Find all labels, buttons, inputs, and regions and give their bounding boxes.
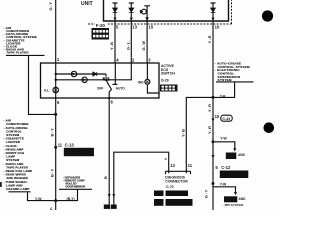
svg-text:10: 10 [215, 24, 220, 29]
svg-text:HAR-: HAR- [155, 200, 161, 203]
MPI SYSTEM label [223, 203, 244, 207]
wire below pin5 (B-Y) [55, 98, 57, 210]
label 10 C-43 [215, 114, 220, 119]
wire label Y-B on pin11 wire [180, 128, 185, 137]
list 3 feeder wire [28, 192, 56, 201]
wire label Y-B [109, 41, 114, 50]
node dot wireA [55, 73, 57, 75]
svg-text:13: 13 [132, 24, 137, 29]
connector F-20 label [95, 23, 108, 28]
diode D2 inside unit [129, 3, 134, 21]
wire through switch (pin1 to pin5) [55, 63, 57, 98]
svg-text:B-Y: B-Y [50, 128, 55, 137]
svg-text:G-W: G-W [141, 40, 146, 50]
ILL lamp [53, 87, 59, 93]
branch1 wire [213, 142, 235, 149]
arrow branch2 [234, 192, 237, 195]
diode D1 inside unit [113, 3, 118, 21]
node dot wireB [55, 79, 57, 81]
AND label 2 [239, 197, 247, 201]
svg-text:15: 15 [149, 24, 154, 29]
wire pin6 to ground (B) [108, 98, 110, 205]
list 1 underline [6, 54, 45, 56]
list 1 (top left consumers) [4, 26, 37, 55]
svg-text:AUTO: AUTO [116, 87, 125, 91]
wire label G-W [141, 40, 146, 50]
node dot branch1 [212, 140, 215, 143]
ECS switch box [41, 63, 160, 98]
svg-text:Y-R: Y-R [207, 125, 212, 134]
svg-text:C-12: C-12 [221, 165, 231, 170]
svg-text:ILL: ILL [44, 89, 49, 93]
node dot C-13 [54, 146, 57, 149]
edge smudge [0, 182, 2, 187]
label 11 C-13 [58, 143, 75, 148]
list 4 underline [59, 188, 92, 190]
svg-text:ECTOR: ECTOR [166, 194, 174, 196]
svg-text:CONNECTOR: CONNECTOR [165, 180, 188, 184]
svg-text:11: 11 [58, 143, 63, 148]
wire label G-L [125, 41, 130, 50]
svg-text:(B-Y): (B-Y) [67, 197, 75, 201]
ground wire W3 [114, 152, 169, 204]
pin 2 label [132, 57, 135, 62]
black box dome lamp [224, 196, 237, 203]
tick near wire [165, 158, 167, 160]
svg-text:Y-B: Y-B [109, 41, 114, 50]
pin 1 label [57, 57, 60, 62]
branch2 wire [213, 187, 236, 193]
connector C-43 oval [221, 115, 232, 121]
diagnosis connector bracket C-70 [166, 171, 191, 174]
svg-text:AND: AND [239, 197, 247, 201]
svg-text:BLOCK: BLOCK [65, 152, 76, 156]
svg-text:D-29: D-29 [161, 79, 169, 83]
pin 6 label below box [111, 100, 114, 105]
switch OFF/AUTO [104, 63, 118, 98]
pin 5 label [116, 24, 119, 29]
svg-text:F-20: F-20 [96, 23, 106, 28]
wire Y-R (unit pin10 down right side) [212, 21, 214, 210]
AUTO label [116, 87, 125, 91]
DIAGNOSIS CONNECTOR label [165, 176, 188, 189]
wire label Y-W branch1 [220, 136, 227, 140]
LED1 [71, 71, 76, 76]
OFF label [97, 86, 103, 90]
buzzer/LED component inside unit [140, 6, 150, 21]
switch tiny label [103, 77, 110, 80]
wire label Y-R mid [207, 103, 212, 112]
svg-text:10: 10 [215, 114, 220, 119]
node dot pin6 [108, 97, 110, 99]
node dot bottom junction [54, 199, 57, 202]
svg-text:SWITCH: SWITCH [161, 72, 175, 76]
IND lamp [145, 63, 159, 93]
label 5 C-12 [215, 165, 231, 170]
wire label Y-R at junction [220, 95, 226, 99]
junction block C-12 (black) [220, 171, 249, 179]
svg-text:G-Y: G-Y [48, 1, 53, 10]
svg-text:OR: OR [166, 204, 170, 206]
hole punch dot 2 [264, 122, 275, 133]
wire label G-Y [48, 1, 53, 10]
connector D-29 block [160, 85, 178, 92]
svg-text:Y-R: Y-R [207, 103, 212, 112]
black box row2 wide [166, 199, 193, 206]
svg-text:12: 12 [170, 163, 175, 168]
arrow on wire B [108, 194, 111, 197]
svg-text:C-43: C-43 [222, 117, 230, 121]
svg-text:AUTO: AUTO [103, 77, 110, 80]
svg-text:Y-B: Y-B [180, 128, 185, 137]
IND label [138, 80, 144, 84]
ground connector block 2 [111, 205, 117, 210]
ILL label [44, 89, 49, 93]
pin 3 label [148, 57, 151, 62]
wire label (B-Y) [67, 197, 75, 201]
pin 12 label [170, 163, 175, 168]
wire label B-Y lower [50, 168, 55, 177]
node dot Y-R junction [212, 96, 215, 99]
svg-text:B: B [103, 176, 108, 179]
black box tail lamp [226, 153, 237, 160]
svg-text:Y-R: Y-R [207, 35, 212, 44]
wire label B-Y upper [50, 128, 55, 137]
svg-text:NESS: NESS [155, 204, 161, 206]
svg-text:UNIT: UNIT [81, 1, 93, 7]
pin 15 label [149, 24, 154, 29]
wire label Y-W branch2 [220, 183, 227, 187]
svg-text:LAMP: LAMP [227, 156, 234, 159]
unit label text [81, 1, 93, 7]
wire A (to OFF/AUTO switch) [56, 73, 106, 75]
svg-text:C-70: C-70 [166, 185, 174, 189]
LED2 [82, 77, 87, 82]
unit box (control unit, top, cut off) [104, 0, 229, 21]
svg-text:TAPE PLAYER: TAPE PLAYER [6, 51, 29, 55]
wire label Y-R mid2 [207, 125, 212, 134]
junction block label (black) [64, 148, 94, 156]
black box row1 wide [166, 191, 189, 197]
diode D4 (in wire A) [93, 72, 97, 76]
pin 5 label below box [57, 100, 60, 105]
list 3 underline [9, 191, 31, 193]
node dot junction list1 [54, 113, 57, 116]
svg-text:G-L: G-L [125, 41, 130, 50]
hole punch dot 1 [262, 10, 273, 21]
arrow branch1 [233, 148, 236, 151]
list 4 feeder wire [56, 189, 78, 200]
wire label G-Y bottom [204, 189, 209, 198]
svg-text:11: 11 [188, 163, 193, 168]
wire label Y-R top [207, 35, 212, 44]
svg-text:HAZARD LAMP: HAZARD LAMP [6, 187, 29, 191]
svg-text:BLOCK: BLOCK [221, 174, 230, 178]
wire G-L (unit pin13 to switch pin2) [130, 21, 132, 63]
arrow on Y-R wire 2 [212, 155, 215, 158]
wire label Y-W [35, 197, 42, 201]
wire G-Y (top left vertical into switch pin1) [55, 0, 57, 63]
svg-text:Y-W: Y-W [220, 183, 227, 187]
connector row F-20 dashed line [88, 0, 232, 24]
wire G-W (unit pin15 to switch pin3) [146, 21, 148, 63]
svg-text:IND: IND [138, 80, 144, 84]
arrow on Y-R wire [212, 119, 215, 122]
black box row1 small [154, 191, 164, 197]
ACTIVE ECS SWITCH label [161, 64, 175, 82]
list 4 (defogger etc) [63, 175, 85, 188]
arrow on wire W3 [112, 194, 115, 197]
svg-text:Y-R: Y-R [220, 95, 226, 99]
svg-text:MENT: MENT [155, 194, 162, 196]
pin 13 label [132, 24, 137, 29]
pin 4 label [116, 57, 119, 62]
svg-text:B-Y: B-Y [50, 168, 55, 177]
wire pin11 to Y-R junction [186, 82, 234, 171]
node dot branch2 [212, 182, 215, 185]
svg-text:· MPI SYSTEM: · MPI SYSTEM [223, 203, 244, 207]
connector F-20 block [92, 28, 110, 40]
arrowheads on unit wires [114, 18, 215, 21]
wire Y-B (unit pin5 to switch pin4) [114, 21, 116, 63]
list 2 underline [216, 81, 254, 83]
svg-text:DOOR MIRROR: DOOR MIRROR [66, 184, 86, 188]
pin 10 label [215, 24, 220, 29]
list 2 (right consumers) [215, 62, 250, 83]
wire label Y bottom [49, 206, 54, 210]
ground connector block 1 [104, 205, 110, 210]
black box row2 small [154, 199, 164, 206]
svg-text:OFF: OFF [97, 86, 103, 90]
wire B (to pin 2) [56, 63, 132, 80]
diode D3 inside unit [211, 3, 216, 21]
pin 11 label [188, 163, 193, 168]
AND label [238, 153, 246, 157]
list 1 feeder wire [29, 55, 56, 114]
svg-text:C-13: C-13 [65, 143, 75, 148]
svg-text:AND: AND [238, 153, 246, 157]
svg-text:Y-W: Y-W [220, 136, 227, 140]
wire label B [103, 176, 108, 179]
svg-text:Y-W: Y-W [35, 197, 42, 201]
list 3 (bottom left consumers) [4, 119, 33, 191]
svg-text:G-Y: G-Y [204, 189, 209, 198]
